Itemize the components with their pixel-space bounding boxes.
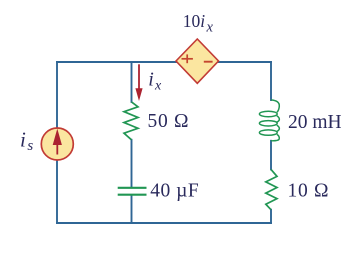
svg-text:i: i [20,128,26,152]
svg-text:x: x [206,19,214,35]
svg-text:40 µF: 40 µF [150,181,199,202]
svg-text:20 mH: 20 mH [288,112,342,133]
svg-text:10 Ω: 10 Ω [288,181,330,202]
svg-text:i: i [148,68,154,90]
svg-text:s: s [27,138,33,154]
svg-text:x: x [154,79,162,94]
svg-text:50 Ω: 50 Ω [148,111,190,132]
svg-text:10i: 10i [183,11,206,31]
